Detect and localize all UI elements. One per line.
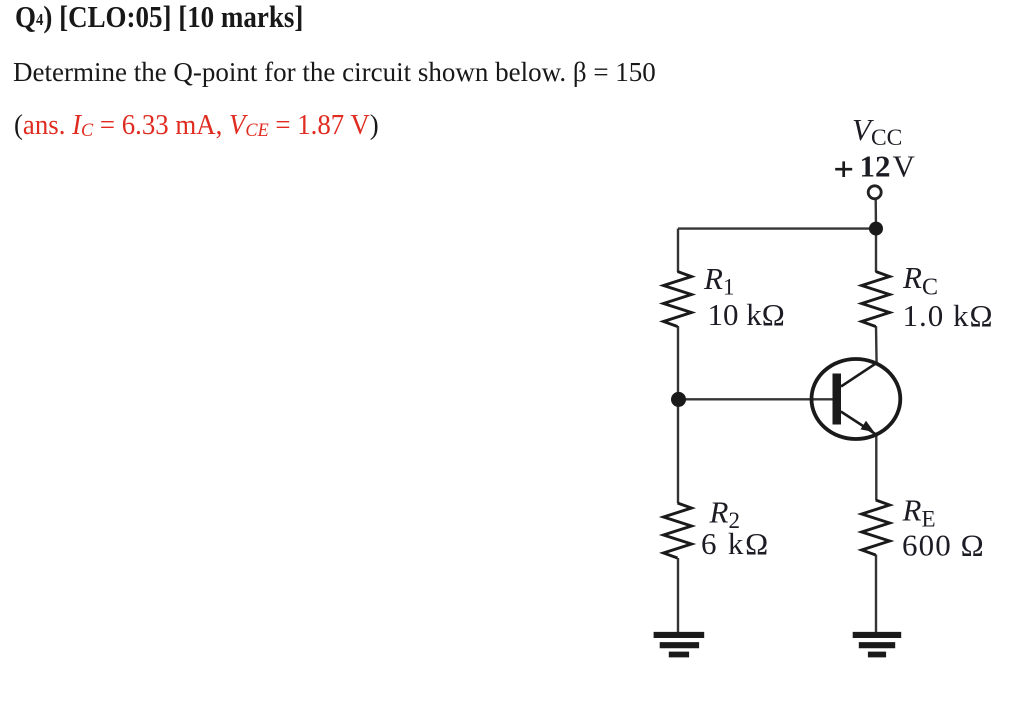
svg-text:6 kΩ: 6 kΩ: [701, 526, 770, 561]
answer line: [14, 112, 379, 140]
svg-text:1.0 kΩ: 1.0 kΩ: [903, 298, 994, 333]
svg-text:VCC: VCC: [852, 112, 902, 151]
svg-text:RC: RC: [902, 260, 938, 301]
wire: R2 to ground: [677, 558, 679, 634]
question heading: [15, 1, 303, 32]
wire: top rail to RC: [875, 229, 877, 272]
transistor Q1: [812, 359, 901, 439]
question text: [13, 59, 656, 86]
resistor RE: [862, 500, 890, 555]
svg-text:12V: 12V: [860, 149, 916, 184]
resistor R2: [664, 503, 692, 558]
svg-text:RE: RE: [902, 493, 936, 532]
ground (right): [853, 635, 902, 655]
wire: emitter to RE: [875, 433, 877, 500]
supply terminal (open circle): [868, 186, 881, 199]
junction dot at base node: [671, 392, 686, 407]
wire: top rail to R1: [677, 229, 679, 272]
wire: base node to R2: [677, 399, 679, 503]
svg-text:R1: R1: [703, 261, 734, 300]
wire: supply stub: [875, 200, 878, 230]
svg-text:10 kΩ: 10 kΩ: [708, 297, 785, 332]
ground (left): [654, 635, 705, 655]
wire: R1 to base node: [677, 326, 679, 399]
wire: base: [678, 398, 833, 400]
wire: RE to ground: [875, 555, 877, 635]
svg-text:600 Ω: 600 Ω: [902, 528, 985, 563]
resistor RC: [862, 272, 890, 327]
wire: top rail: [678, 227, 876, 229]
wire: RC to collector: [875, 326, 878, 364]
resistor R1: [664, 272, 692, 327]
junction dot at VCC node: [869, 222, 883, 236]
